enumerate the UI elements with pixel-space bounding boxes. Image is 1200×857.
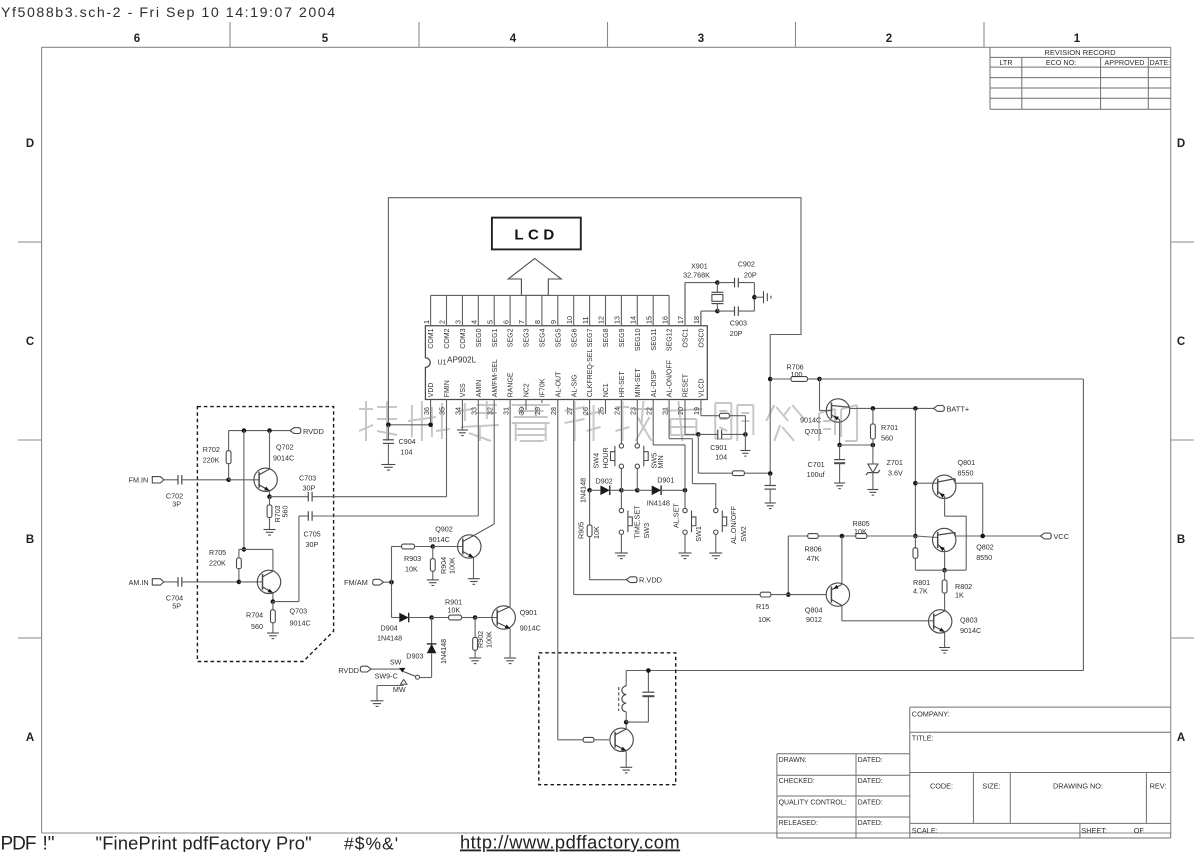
wire VCC [955,535,1040,537]
flag BATT+ [913,406,918,411]
transistor Q803 9014C [929,610,952,633]
svg-text:R704: R704 [246,611,263,620]
svg-text:RESET: RESET [683,373,690,397]
wire Q703 emitter [272,593,274,602]
wire Q902 emitter [473,558,475,579]
node VLCD bias [768,471,773,476]
resistor R902 100K [474,618,476,638]
ground R904 [427,579,439,581]
svg-text:C: C [26,336,34,348]
ground SW3 [615,552,628,554]
svg-text:8550: 8550 [958,469,974,478]
segment bus [431,294,669,296]
svg-text:SW3: SW3 [642,523,651,539]
flag RVDD [290,428,301,434]
svg-text:NC1: NC1 [603,383,610,397]
resistor R702 220K [228,431,230,451]
svg-text:R.VDD: R.VDD [639,576,662,585]
switch SW9-C lever [403,672,415,677]
svg-text:D904: D904 [381,624,398,633]
svg-text:31: 31 [501,407,510,415]
svg-text:REV:: REV: [1150,782,1167,791]
svg-text:10K: 10K [447,605,460,614]
svg-text:C701: C701 [808,460,825,469]
capacitor C703 30P [270,496,309,498]
svg-text:20: 20 [676,407,685,415]
capacitor VLCD bias [769,474,771,486]
ground SW2 [709,552,722,554]
svg-text:VLCD: VLCD [699,379,706,398]
transistor Q902 9014C [433,546,463,548]
svg-text:20P: 20P [730,329,743,338]
wire Q804 emitter up [841,536,843,585]
node D904 cathode [429,615,434,620]
svg-text:SEG0: SEG0 [476,328,483,347]
svg-text:R15: R15 [756,602,769,611]
node Q702 base [226,478,231,483]
pin 6 SEG2 [509,295,511,325]
svg-text:D903: D903 [406,652,423,661]
wire rail [621,489,637,491]
svg-text:9: 9 [549,320,558,324]
pin 12 SEG8 [605,295,607,325]
wire Q901 emitter [509,629,511,659]
node crystal bottom [715,309,720,314]
node R902 top [473,615,478,620]
svg-text:RVDD: RVDD [303,427,324,436]
svg-text:9014C: 9014C [960,626,981,635]
svg-text:Q902: Q902 [435,525,453,534]
svg-text:DATED:: DATED: [858,757,883,764]
svg-text:560: 560 [281,506,290,518]
svg-text:SEG8: SEG8 [603,328,610,347]
wire Q804 collector [841,606,843,621]
wire MW to ground [377,685,404,687]
resistor R704 560 [272,602,274,610]
pin 17 OSC1 [684,283,686,326]
wire top rail to right edge [820,378,1084,380]
zone ticks left [18,241,42,243]
svg-text:Z701: Z701 [887,458,903,467]
transistor Q702 9014C [254,468,277,491]
svg-text:9014C: 9014C [429,535,450,544]
svg-text:1N4148: 1N4148 [439,639,448,664]
svg-text:B: B [26,534,34,546]
node emitter C705 [271,599,276,604]
svg-text:R903: R903 [404,554,421,563]
svg-text:AL-DISP: AL-DISP [651,370,658,398]
svg-text:22: 22 [644,407,653,415]
wire collector to cap [626,721,648,723]
pin 1 COM1 [430,295,432,325]
svg-text:19: 19 [692,407,701,415]
svg-text:VDD: VDD [428,383,435,398]
arrow to LCD [508,259,561,296]
svg-text:Q901: Q901 [520,608,538,617]
svg-text:CODE:: CODE: [930,782,953,791]
svg-text:AL-OUT: AL-OUT [555,371,562,397]
svg-text:9014C: 9014C [273,454,294,463]
resistor R805 10K [867,535,916,537]
transistor Q703 9014C [257,570,280,593]
svg-text:AL-ON/OFF: AL-ON/OFF [667,360,674,397]
svg-text:LCD: LCD [514,227,558,244]
wire OSC1 pin17 [684,283,686,326]
svg-text:14: 14 [629,316,638,324]
wire base [229,479,260,481]
node emitter rail [942,568,947,573]
svg-text:32: 32 [485,407,494,415]
node collector [624,720,629,725]
ground Q803 [939,647,950,649]
capacitor C903 20P [717,310,734,312]
svg-text:IN4148: IN4148 [647,499,670,508]
wire R806 corner [787,536,789,595]
svg-text:http://www.pdffactory.com: http://www.pdffactory.com [460,832,680,853]
svg-text:VCC: VCC [1054,532,1070,541]
node SW5 bottom [635,488,640,493]
svg-text:ECO NO:: ECO NO: [1046,58,1076,67]
wire Q803 emitter to ground [944,632,946,648]
watermark [359,401,397,441]
node R706 right [817,377,822,382]
node R904 top [431,544,436,549]
svg-text:23: 23 [629,407,638,415]
wire emitter rail [915,569,966,571]
transistor buzzer driver [610,728,633,751]
pin 30 NC2 [525,400,527,411]
svg-text:SCALE:: SCALE: [912,826,938,835]
node VDD rail [428,423,433,428]
svg-text:R806: R806 [805,545,822,554]
pin 8 SEG4 [541,295,543,325]
svg-text:!": !" [43,834,55,853]
svg-text:AP902L: AP902L [447,356,477,365]
svg-text:34: 34 [454,407,463,415]
svg-text:DRAWN:: DRAWN: [779,757,807,764]
switch SW3 TIME.SET [620,490,622,508]
svg-text:TITLE:: TITLE: [912,734,934,743]
svg-text:AM.IN: AM.IN [129,578,149,587]
svg-text:12: 12 [597,316,606,324]
svg-text:Q703: Q703 [290,607,308,616]
svg-text:APPROVED: APPROVED [1105,58,1145,67]
svg-text:R905: R905 [577,522,586,539]
wire Q803 base [842,620,934,622]
svg-text:DRAWING NO:: DRAWING NO: [1053,782,1103,791]
svg-text:Q701: Q701 [805,427,823,436]
node R701 bottom [871,443,876,448]
svg-text:8: 8 [533,320,542,324]
ground C901 [744,434,746,450]
svg-text:3: 3 [698,33,704,45]
zone ticks right [1171,241,1194,243]
svg-text:Q802: Q802 [976,543,994,552]
svg-text:D902: D902 [596,477,613,486]
wire emitter down [625,751,627,768]
svg-text:D901: D901 [657,476,674,485]
svg-text:DATED:: DATED: [858,799,883,806]
pin 13 SEG9 [620,295,622,325]
svg-text:U1: U1 [438,360,447,367]
svg-text:OF: OF [1134,826,1145,835]
capacitor buzzer [642,691,654,693]
svg-text:QUALITY CONTROL:: QUALITY CONTROL: [779,799,847,806]
resistor R706 100 [770,378,791,380]
svg-text:C903: C903 [730,319,747,328]
svg-text:100: 100 [791,370,803,379]
svg-text:104: 104 [715,453,727,462]
pin 7 SEG3 [525,295,527,325]
svg-text:C705: C705 [304,530,321,539]
capacitor C902 20P [717,282,734,284]
svg-text:"FinePrint pdfFactory Pro": "FinePrint pdfFactory Pro" [96,833,312,853]
svg-text:1: 1 [1074,33,1081,45]
resistor R705 220K [237,558,242,569]
svg-text:104: 104 [401,448,413,457]
svg-text:8550: 8550 [976,553,992,562]
svg-text:3: 3 [454,320,463,324]
ground C701 [834,482,845,484]
ground Q902 [468,578,480,580]
svg-text:DATE:: DATE: [1150,58,1171,67]
svg-text:COM1: COM1 [428,328,435,348]
wire VLCD pin19 [700,400,702,416]
wire OSC0 pin18 [700,311,702,326]
wire R705 top rail [239,548,273,550]
wire VSS pin34 [461,400,463,431]
svg-text:26: 26 [581,407,590,415]
wire Q802 emitter [944,550,946,570]
wire RVDD rail [229,430,290,432]
wire to R.VDD flag [590,579,627,581]
pin 10 SEG6 [573,295,575,325]
svg-text:24: 24 [613,407,622,415]
ground buzzer [620,766,632,768]
capacitor C704 5P [164,581,178,583]
resistor R802 1K [944,570,946,580]
LCD box [492,218,581,250]
svg-text:36: 36 [422,407,431,415]
svg-text:TIME.SET: TIME.SET [633,505,642,539]
transistor Q701 9014C [819,379,821,411]
svg-text:COMPANY:: COMPANY: [912,710,950,719]
svg-text:SW2: SW2 [739,526,748,542]
wire Q801 collector [954,479,956,484]
resistor R903 10K [392,546,402,548]
svg-text:33: 33 [470,407,479,415]
svg-text:SEG3: SEG3 [524,328,531,347]
svg-text:9014C: 9014C [800,416,821,425]
approvals table [777,753,910,755]
resistor VLCD series [719,413,729,418]
node FM/AM [389,580,394,585]
node crystal top [715,280,720,285]
svg-text:29: 29 [533,407,542,415]
svg-text:10: 10 [565,316,574,324]
LCD frame wire [388,198,801,474]
svg-text:4: 4 [510,33,517,45]
flag R.VDD [626,577,637,583]
switch SW9-C common contact [399,668,405,673]
svg-text:10K: 10K [854,527,867,536]
svg-text:32.768K: 32.768K [683,271,710,280]
svg-text:47K: 47K [807,554,820,563]
svg-text:10K: 10K [405,565,418,574]
svg-text:6: 6 [501,320,510,324]
svg-text:SEG6: SEG6 [571,328,578,347]
pin 16 SEG12 [668,295,670,325]
svg-text:Yf5088b3.sch-2 - Fri Sep 10 14: Yf5088b3.sch-2 - Fri Sep 10 14:19:07 200… [1,5,337,21]
diode D904 1N4148 [392,617,400,619]
svg-text:4.7K: 4.7K [913,587,928,596]
svg-text:1: 1 [422,320,431,324]
svg-text:FM/AM: FM/AM [344,578,368,587]
svg-text:11: 11 [581,317,590,324]
transistor Q901 9014C [475,617,497,619]
diode D902 1N4148 [590,489,601,491]
svg-text:D: D [26,138,34,150]
wire RVDD to switch [371,668,401,670]
svg-text:FMIN: FMIN [444,380,451,397]
svg-text:3P: 3P [172,499,181,508]
svg-text:HR-SET: HR-SET [619,371,626,398]
pin 11 SEG7 [589,295,591,325]
revision record table [989,47,991,109]
resistor reset-VLCD [732,471,744,476]
svg-text:17: 17 [676,316,685,324]
svg-text:RVDD: RVDD [338,666,359,675]
diode D903 1N4148 [431,618,433,644]
ground R703 [264,529,276,531]
pin 15 SEG11 [652,295,654,325]
svg-text:C904: C904 [399,437,416,446]
svg-text:C703: C703 [299,474,316,483]
svg-text:Q803: Q803 [960,616,978,625]
svg-text:X901: X901 [691,262,708,271]
wire CLKFREQ pin26 [589,400,591,491]
svg-text:RELEASED:: RELEASED: [779,820,818,827]
svg-text:HOUR: HOUR [601,447,610,468]
switch SW4 HOUR [620,400,622,444]
switch SW9-C MW contact [401,680,407,685]
svg-text:4: 4 [470,320,479,324]
capacitor C705 30P [299,515,308,517]
svg-text:1K: 1K [955,591,964,600]
capacitor C904 [387,425,389,440]
inductor buzzer coil [625,671,627,687]
svg-text:SEG5: SEG5 [555,328,562,347]
svg-text:2: 2 [438,320,447,324]
svg-text:SEG9: SEG9 [619,328,626,347]
resistor R806 47K [818,535,855,537]
wire C703 to FMIN pin35 [446,400,448,497]
svg-text:16: 16 [660,316,669,324]
pin 9 SEG5 [557,295,559,325]
capacitor C701 100uf [839,445,841,460]
resistor R701 560 [871,406,876,411]
svg-text:BATT+: BATT+ [947,405,970,414]
svg-text:9012: 9012 [806,615,822,624]
sheet border frame [42,46,1171,48]
svg-text:30P: 30P [303,484,316,493]
svg-text:220K: 220K [203,456,220,465]
ground R704 [267,632,279,634]
svg-text:28: 28 [549,407,558,415]
ground crystal (right facing) [754,296,763,298]
svg-text:Q702: Q702 [276,443,294,452]
node R706 left [768,377,773,382]
svg-text:REVISION RECORD: REVISION RECORD [1044,48,1116,57]
node emitter C703 [267,494,272,499]
wire RESET pin20 [684,400,686,435]
svg-text:AM/FM-SEL: AM/FM-SEL [492,359,499,397]
dashed box buzzer [539,653,676,785]
svg-text:5: 5 [485,320,494,324]
resistor R801 4.7K [914,536,916,548]
wire AL-DISP pin22 [652,400,654,445]
wire RVDD drop [243,431,245,550]
node Q801 base [913,481,918,486]
svg-text:AL.SET: AL.SET [672,503,681,528]
coil core dashes [618,687,620,711]
svg-text:RANGE: RANGE [508,372,515,397]
svg-text:SEG4: SEG4 [540,328,547,347]
svg-text:PDF: PDF [1,834,36,853]
svg-text:SEG11: SEG11 [651,328,658,350]
pin 14 SEG10 [636,295,638,325]
svg-text:COM3: COM3 [460,328,467,348]
svg-text:MW: MW [393,685,406,694]
svg-text:30P: 30P [306,540,319,549]
switch SW1 AL.SET [684,490,686,508]
title block [910,706,1171,708]
svg-text:Q801: Q801 [958,458,976,467]
zone ticks top [229,22,231,47]
svg-text:DATED:: DATED: [858,820,883,827]
svg-text:5P: 5P [172,602,181,611]
svg-text:R701: R701 [881,423,898,432]
svg-text:OSC1: OSC1 [683,328,690,347]
ground Z701 [867,489,878,491]
pin 3 COM3 [461,295,463,325]
svg-text:SW: SW [390,658,402,667]
wire crystal caps right [753,283,755,312]
svg-text:3.6V: 3.6V [888,469,903,478]
wire emitter to C705 riser [273,601,299,603]
capacitor C901 104 [698,433,718,435]
svg-text:#$%&': #$%&' [344,834,399,853]
svg-text:560: 560 [251,622,263,631]
transistor Q801 8550 [915,482,937,484]
node D902 anode [587,488,592,493]
wire BATT+ down [914,408,916,536]
pin 18 OSC0 [700,311,702,326]
resistor R904 100K [432,547,434,559]
svg-text:OSC0: OSC0 [699,328,706,347]
svg-text:FM.IN: FM.IN [129,476,149,485]
wire BATT+ rail [849,407,933,409]
svg-text:SEG7: SEG7 [587,328,594,347]
resistor buzzer base [583,737,594,742]
svg-text:R705: R705 [209,548,226,557]
resistor R905 10K [589,490,591,525]
svg-text:C902: C902 [738,260,755,269]
ground SW1 [679,552,692,554]
node R15/R806 [786,592,791,597]
svg-text:5: 5 [322,33,329,45]
svg-text:MIN: MIN [656,455,665,468]
